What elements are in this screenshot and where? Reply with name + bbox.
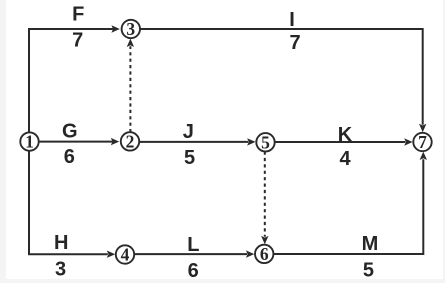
svg-text:5: 5	[363, 260, 374, 282]
svg-text:I: I	[289, 9, 295, 31]
svg-text:5: 5	[261, 132, 270, 152]
svg-text:6: 6	[64, 146, 75, 168]
svg-text:7: 7	[289, 32, 300, 54]
svg-text:7: 7	[72, 30, 83, 52]
svg-text:5: 5	[184, 147, 195, 169]
svg-text:4: 4	[339, 148, 351, 170]
svg-text:L: L	[187, 234, 199, 256]
svg-text:7: 7	[418, 132, 427, 152]
svg-text:J: J	[183, 121, 194, 143]
svg-text:6: 6	[260, 244, 269, 264]
svg-text:3: 3	[126, 19, 135, 39]
svg-text:4: 4	[121, 245, 130, 265]
svg-text:6: 6	[188, 260, 199, 282]
svg-text:F: F	[72, 3, 84, 25]
svg-text:K: K	[338, 124, 353, 146]
svg-text:2: 2	[126, 132, 135, 152]
svg-text:H: H	[54, 232, 68, 254]
svg-text:M: M	[362, 233, 379, 255]
svg-text:1: 1	[25, 132, 34, 152]
svg-text:G: G	[62, 121, 78, 143]
svg-text:3: 3	[55, 259, 66, 281]
